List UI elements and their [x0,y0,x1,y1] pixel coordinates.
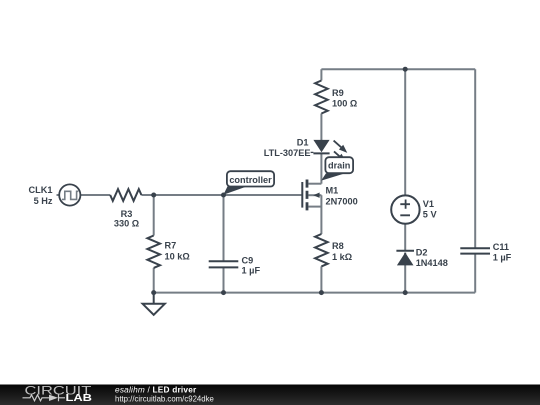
svg-text:esalihm / LED driver: esalihm / LED driver [115,385,197,395]
svg-text:C11: C11 [493,242,509,252]
svg-text:D2: D2 [416,248,428,258]
svg-text:C9: C9 [242,255,254,265]
svg-text:http://circuitlab.com/c924dke: http://circuitlab.com/c924dke [115,395,214,404]
svg-text:V1: V1 [423,199,434,209]
svg-text:10 kΩ: 10 kΩ [165,251,190,261]
svg-text:D1: D1 [297,137,309,147]
svg-text:5 Hz: 5 Hz [34,196,53,206]
svg-text:100 Ω: 100 Ω [332,99,357,109]
svg-text:drain: drain [328,161,351,171]
svg-text:LAB: LAB [66,393,93,404]
svg-text:1N4148: 1N4148 [416,258,448,268]
svg-text:1 µF: 1 µF [242,266,261,276]
svg-text:1 kΩ: 1 kΩ [332,252,352,262]
svg-text:CLK1: CLK1 [29,185,53,195]
svg-text:M1: M1 [326,186,339,196]
svg-text:R3: R3 [121,209,133,219]
svg-text:controller: controller [229,175,272,185]
svg-text:5 V: 5 V [423,210,438,220]
svg-text:R9: R9 [332,88,344,98]
svg-text:1 µF: 1 µF [493,252,512,262]
svg-text:LTL-307EE: LTL-307EE [264,148,311,158]
svg-text:330 Ω: 330 Ω [114,219,139,229]
svg-text:2N7000: 2N7000 [326,197,358,207]
svg-text:R8: R8 [332,241,344,251]
svg-text:R7: R7 [165,241,177,251]
